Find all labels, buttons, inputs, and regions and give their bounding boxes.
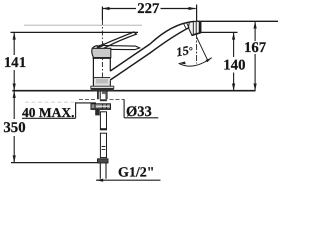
outlet block: [188, 21, 201, 35]
15 deg arc right arrow: [206, 58, 212, 63]
spout neck joint lines: [184, 23, 190, 29]
body sides: [93, 58, 110, 88]
ext 167 top: [197, 20, 278, 22]
svg-text:G1/2": G1/2": [118, 165, 155, 180]
svg-text:227: 227: [137, 1, 160, 17]
dim 227 left arrow: [102, 7, 109, 10]
spout upper edge: [110, 21, 194, 71]
outlet bottom edge: [192, 33, 201, 36]
svg-text:350: 350: [3, 120, 25, 136]
body seam: [93, 77, 110, 79]
countertop line: [12, 90, 255, 92]
svg-text:167: 167: [244, 40, 267, 56]
base dark band: [91, 88, 114, 91]
ext 350 bottom: [11, 162, 97, 164]
ext 140: [201, 31, 238, 33]
dim 141 line: [13, 32, 15, 90]
dim 167 bottom arrow: [254, 84, 257, 91]
svg-text:40 MAX.: 40 MAX.: [22, 105, 75, 120]
dim 350 line: [13, 91, 15, 163]
dim 350 top arrow: [13, 91, 16, 98]
hose flange: [98, 159, 109, 163]
dim 227 line: [102, 8, 195, 10]
spout lower edge: [110, 28, 189, 80]
15 deg angle slant leg: [197, 37, 208, 61]
dim 167 top arrow: [254, 21, 257, 28]
washer above nut: [100, 99, 107, 101]
svg-text:15°: 15°: [175, 43, 194, 60]
base plate: [91, 86, 114, 88]
dim 141 top arrow: [13, 32, 16, 39]
G1/2 leader: [96, 179, 161, 181]
40MAX leader: [22, 102, 96, 118]
dim 167 line: [254, 21, 256, 90]
cap bottom edge: [93, 57, 111, 59]
Ø33 leader: [124, 99, 158, 117]
lever paddle left end: [92, 46, 97, 49]
shank thread shading: [102, 92, 106, 95]
lever blade raised: [97, 32, 137, 50]
faint line above lever: [24, 24, 142, 26]
15 deg arc left arrow: [179, 62, 186, 65]
shank threads: [98, 91, 108, 99]
G1/2 arrow: [96, 179, 103, 182]
hose segment 2: [100, 133, 106, 157]
outlet inner lines: [193, 22, 196, 35]
ext 141 top (lever height): [11, 31, 139, 33]
countertop bottom dashed left: [25, 101, 76, 103]
dim 350 bottom arrow: [13, 155, 16, 162]
body lower shading: [94, 78, 110, 86]
lever blade root: [97, 44, 104, 47]
stub below nut: [95, 109, 100, 115]
15 deg arc: [179, 58, 212, 67]
svg-text:Ø33: Ø33: [126, 104, 152, 120]
dim 140 top arrow: [232, 32, 235, 39]
lever paddle horizontal: [98, 45, 139, 49]
dim 227 right arrow: [189, 7, 196, 10]
nut: [91, 104, 111, 110]
hose seg2 ticks: [102, 147, 106, 150]
cap hub: [92, 48, 111, 57]
nut details: [91, 104, 111, 110]
hose seg1 bottom edge: [100, 128, 106, 130]
dim 140 line: [233, 32, 235, 90]
outlet right dark edge: [199, 22, 201, 33]
outlet axis line: [196, 5, 198, 22]
dim 140 bottom arrow: [232, 84, 235, 91]
countertop bottom dashed right: [79, 98, 124, 100]
dim 141 bottom arrow: [13, 84, 16, 91]
hose end tube: [100, 163, 106, 179]
hose segment 1: [100, 112, 106, 130]
svg-text:140: 140: [223, 58, 245, 74]
centerline faucet axis: [101, 7, 103, 21]
svg-text:141: 141: [4, 55, 26, 71]
